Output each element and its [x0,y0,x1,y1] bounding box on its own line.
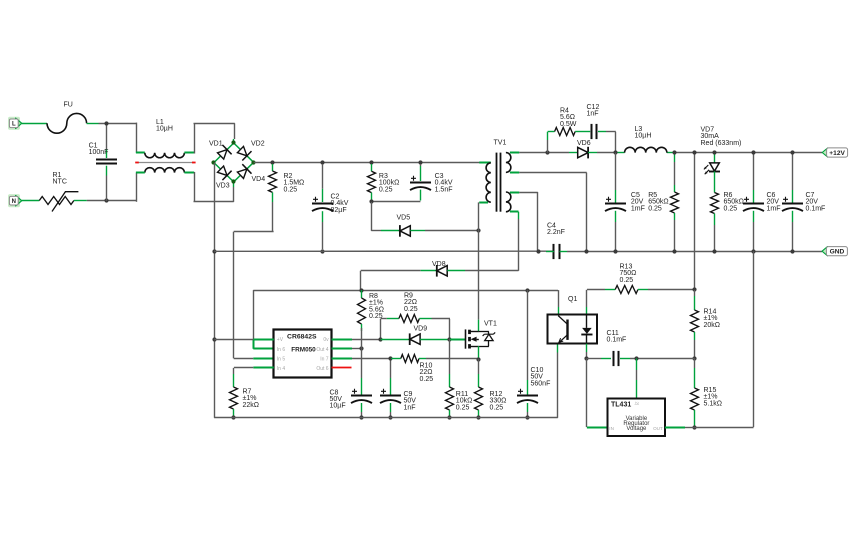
wire L to fuse FU [22,123,47,125]
svg-text:5.1kΩ: 5.1kΩ [704,400,722,407]
label L1 10uH [156,119,173,133]
label C7 [806,192,826,212]
resistor R2 1.5M [269,164,277,202]
junction R6 bottom [712,249,716,253]
optocoupler Q1 body [548,315,598,344]
wire TL431 IN net [587,358,608,427]
wire primary ground mid rail [214,250,554,252]
IC pin5 gate-drive wire (0v row) [332,339,381,341]
svg-text:TV1: TV1 [494,140,507,147]
resistor R8 5.6 [358,290,366,349]
junction R3 top [369,160,373,164]
svg-text:+V: +V [277,337,284,343]
wire VD6 to output node [588,152,615,154]
label R10 [420,363,434,383]
wire C11 right lead [620,358,694,360]
label C8 [330,389,346,409]
capacitor C2 82uF [312,164,333,249]
svg-text:In 5: In 5 [277,357,286,363]
wire VD8 row left segment [361,271,437,291]
TL431 inner text [623,416,649,432]
label R15 [704,387,722,407]
junction row290 / C10 [525,288,529,292]
capacitor C1 100nF [96,125,117,200]
svg-text:VD2: VD2 [251,140,265,147]
label VD2 [251,140,265,147]
svg-text:10µH: 10µH [156,126,173,133]
TL431 pin label OUT [653,426,663,431]
wire main HV rail [254,162,490,164]
label R6 [724,192,744,212]
terminal +12V output [822,148,847,157]
regulator U2 TL431 body [608,399,666,437]
label VD8 [432,261,446,268]
terminal GND output [822,247,847,256]
wire R3/C3 bottom node row [371,201,420,203]
label C10 [531,367,551,387]
svg-text:0.25: 0.25 [379,186,393,193]
wire +12V feed down to feedback [694,153,696,290]
resistor R9 22 [399,315,420,323]
capacitor C10 560nF [517,290,538,418]
svg-text:0.25: 0.25 [648,205,662,212]
bridge corner junction right [251,160,255,164]
label C12 1nF [587,104,600,118]
wire L1 bottom right to bridge bottom [184,172,233,202]
svg-text:2|: 2| [635,402,640,406]
transformer TV1 secondary top winding [506,153,511,173]
svg-text:2.2nF: 2.2nF [547,229,565,236]
junction C10 bottom [525,415,529,419]
wire bridge negative rail (left vertical) [214,163,216,418]
wire VD8 right segment [447,270,518,272]
capacitor C7 0.1mF [782,153,803,252]
label R7 [243,389,260,409]
svg-text:0.1mF: 0.1mF [607,337,627,344]
wire node down to VD5 row [371,202,373,231]
resistor R13 750 [605,286,694,294]
junction R12 bottom [476,415,480,419]
wire feedback row 290 (IC In6 net) [253,290,558,349]
wire VD5 left lead [371,230,400,232]
wire VD5 to drain node [410,230,478,232]
IC pin1 wire (+V to neg rail) [214,339,274,341]
svg-text:1mF: 1mF [767,205,781,212]
svg-text:Q1: Q1 [568,296,577,303]
capacitor C4 2.2nF [554,244,560,259]
label VD6 [577,140,591,147]
resistor R11 10k [446,339,454,418]
label C6 [767,192,781,212]
wire node B to L1 bottom pin [136,173,145,202]
label R13 [620,264,637,284]
svg-text:0.25: 0.25 [724,205,738,212]
label FU [64,102,73,109]
wire secondary pin3 to sec ground [510,192,538,250]
junction C6 bottom [751,249,755,253]
resistor R12 330 [475,359,483,418]
transformer TV1 core [497,153,501,212]
IC U1 CR6842S body [274,330,332,378]
svg-text:FRM050: FRM050 [291,347,316,354]
svg-text:0.25: 0.25 [404,306,418,313]
inductor L1 top winding [145,153,185,158]
wire +12V rail [616,152,822,154]
resistor R14 20k [691,290,699,359]
label C3 1.5nF [435,173,453,193]
wire TV1 primary bottom to drain [479,202,489,331]
wire VT1 source [478,346,480,359]
junction C2 bottom [320,249,324,253]
resistor R5 650k [671,153,679,252]
Q1 internal LED [581,314,592,343]
svg-text:In 7: In 7 [320,357,329,363]
diode VD2 [237,146,251,160]
wire secondary pin1 (top) row [510,152,578,154]
junction gate node [447,337,451,341]
TL431 pin label IN [609,426,614,431]
label C1 100nF [89,142,109,156]
junction C9 bottom [388,415,392,419]
L1 core line with red ends [135,162,195,164]
wire R9 loop left [381,319,399,340]
svg-text:0.25: 0.25 [620,277,634,284]
junction neg rail / IC pin row [212,337,216,341]
transformer TV1 secondary bottom winding [506,192,511,212]
label VT1 [484,321,497,328]
wire R2 bottom to IC In5 [234,202,274,359]
diode VD9 [410,333,420,345]
wire Q1 cathode gray [586,352,588,358]
svg-text:VD1: VD1 [209,140,223,147]
wire R4 to C12 [575,131,590,133]
label R3 100k [379,173,399,193]
label Q1 [568,296,577,303]
svg-text:Out 4: Out 4 [316,347,328,353]
label R8 [369,293,384,320]
junction R5 top [672,150,676,154]
resistor R6 650k [711,193,719,252]
wire Q1 LED anode up to R13 row [587,290,606,315]
label TV1 [494,140,507,147]
capacitor C9 1nF [380,358,401,418]
svg-text:0.5W: 0.5W [560,121,577,128]
junction C7 bottom [790,249,794,253]
terminal L (mains live input) [8,117,22,130]
junction C7 top [790,150,794,154]
junction Out4 / R8-C8 column [359,346,363,350]
bridge edge wires (green diamond) [214,143,254,182]
wire VD9 right lead [420,339,450,341]
label R11 [456,391,473,411]
wire R1 to node B [74,200,137,202]
svg-text:VD4: VD4 [252,176,266,183]
IC title CR6842S [287,333,317,340]
junction C8 bottom [359,415,363,419]
diode VD3 [218,166,232,180]
junction VD7 top [712,150,716,154]
svg-text:82µF: 82µF [331,207,347,214]
junction R14 bottom / C11 row [692,356,696,360]
capacitor C3 1.5nF [410,164,431,201]
TL431 pin2 mark [635,402,640,406]
junction R5 bottom [672,249,676,253]
IC pin4 wire (In4 to R7) [234,368,274,375]
fuse FU [47,113,87,133]
wire TL431 top pin [636,358,638,398]
svg-text:VD6: VD6 [577,140,591,147]
label R1 NTC [53,172,67,186]
svg-text:0.25: 0.25 [420,376,434,383]
junction R11 bottom [447,415,451,419]
svg-text:VD9: VD9 [414,326,428,333]
wire L1 top right to bridge top [184,123,234,153]
label C4 2.2nF [547,223,565,237]
junction sec-gnd tap C4 [536,249,540,253]
label L3 10uH [635,126,652,140]
svg-text:20kΩ: 20kΩ [704,322,721,329]
resistor R15 5.1k [691,358,699,427]
label R5 [648,192,668,212]
svg-text:In 6: In 6 [277,347,286,353]
label VD4 [252,176,266,183]
junction R7 bottom [231,415,235,419]
svg-text:IN: IN [609,426,614,431]
diode VD7 LED [704,153,720,193]
label VD3 [216,182,230,189]
capacitor C6 1mF [743,153,764,252]
junction R2 top [270,160,274,164]
diode VD5 [400,225,410,237]
svg-text:1mF: 1mF [631,205,645,212]
label VD1 [209,140,223,147]
resistor R10 22 [391,355,479,363]
resistor R7 22k [230,374,238,418]
svg-text:In 4: In 4 [277,366,286,372]
inductor L3 10uH [625,147,667,152]
IC left pin labels [277,337,286,372]
junction row290 / R8 [359,288,363,292]
resistor R4 5.6 [555,128,576,136]
wire C4 left green stub [546,251,554,253]
bridge corner junction top [231,140,235,144]
svg-text:0.25: 0.25 [284,186,298,193]
label C9 [404,391,417,411]
label VD7 [701,127,742,147]
TL431 title [611,401,631,408]
junction C2 top [320,160,324,164]
junction C9 top [388,356,392,360]
wire TL431 OUT net [665,251,754,427]
junction VD9 cathode node [378,337,382,341]
junction snubber tap [545,150,549,154]
svg-text:Voltage: Voltage [626,426,647,432]
capacitor C11 0.1mF [614,351,619,366]
junction C3 top [418,160,422,164]
junction R15 bottom / OUT row [692,425,696,429]
junction sec gnd pin2 [584,249,588,253]
junction R3 bottom node [369,199,373,203]
wire snubber branch up [548,132,555,153]
svg-text:FU: FU [64,102,73,109]
capacitor C8 10uF [351,349,372,418]
wire Q1 cathode down to C11 row [586,344,588,352]
svg-text:OUT: OUT [653,426,663,431]
junction TL431 ref tap [634,356,638,360]
diode VD1 [218,145,232,159]
IC subtitle FRM050 [291,347,316,354]
resistor R3 100k [368,164,376,200]
junction neg rail / primary ground [212,249,216,253]
resistor R1 NTC [39,192,78,212]
svg-text:0v: 0v [323,337,329,343]
transistor VT1 MOSFET [466,329,496,348]
diode VD8 [437,265,447,277]
svg-text:0.25: 0.25 [490,404,504,411]
label R14 [704,309,721,329]
svg-text:NTC: NTC [53,179,67,186]
junction C6 top [751,150,755,154]
wire secondary pin4 down to VD8 row [510,212,519,271]
diode VD4 [237,164,251,178]
wire gate lead [450,339,466,341]
label C2 82uF [331,194,349,214]
wire C4 right to GND rail [559,251,822,253]
junction C5 bottom [613,249,617,253]
svg-text:Red (633nm): Red (633nm) [701,140,742,147]
wire primary ground bottom rail [214,344,558,418]
wire node A to L1 top pin [136,123,145,153]
svg-text:TL431: TL431 [611,401,631,408]
junction R13 right / R14 top [692,287,696,291]
bridge corner junction bottom [231,179,235,183]
terminal N (mains neutral input) [8,194,22,207]
label C5 [631,192,645,212]
Q1 phototransistor [558,316,567,344]
wire VD9 left lead [381,339,410,341]
svg-text:CR6842S: CR6842S [287,333,317,340]
svg-text:100nF: 100nF [89,149,109,156]
svg-text:VD5: VD5 [397,215,411,222]
svg-text:10µF: 10µF [330,403,346,410]
junction VD6 out / C5 / C12 [613,150,617,154]
junction C11 row left [584,356,588,360]
svg-text:VD3: VD3 [216,182,230,189]
svg-text:560nF: 560nF [531,380,551,387]
wire N to R1 [22,200,40,202]
IC pin8 unconnected red stub (Out 6) [332,367,352,369]
svg-text:GND: GND [830,249,845,256]
wire C12 to rail [598,132,616,152]
label VD5 [397,215,411,222]
wire C11 left lead [587,358,611,360]
wire secondary pin2 to sec ground [510,173,587,251]
inductor L1 bottom winding [145,168,185,173]
svg-text:22kΩ: 22kΩ [243,402,260,409]
junction VD5 / drain line [476,228,480,232]
IC right pin labels [316,337,329,372]
wire R9 loop right [419,319,450,340]
capacitor C5 1mF [605,153,626,252]
bridge corner junction left [211,160,215,164]
wire fuse to node A [87,123,137,125]
label R9 [404,293,418,313]
IC pin7 wire (In7 row to C9/R10) [332,358,391,360]
label R12 [490,391,507,411]
svg-text:VD8: VD8 [432,261,446,268]
svg-text:N: N [12,199,16,205]
svg-text:0.1mF: 0.1mF [806,205,826,212]
svg-text:1.5nF: 1.5nF [435,186,453,193]
junction node B (C1 bottom) [104,198,108,202]
svg-text:1nF: 1nF [404,404,416,411]
svg-text:+12V: +12V [829,150,845,157]
junction feed top [692,150,696,154]
IC pin6 wire (Out4 to C8/R8 column) [332,348,362,350]
diode VD6 [578,147,588,159]
svg-text:VT1: VT1 [484,321,497,328]
transformer TV1 primary winding [479,163,491,203]
label C11 [607,330,627,344]
junction node A (C1 top) [104,121,108,125]
svg-text:L: L [12,122,16,128]
label R2 1.5M [284,173,305,193]
svg-text:10µH: 10µH [635,133,652,140]
junction source node [476,357,480,361]
svg-text:0.25: 0.25 [456,404,470,411]
svg-text:1nF: 1nF [587,111,599,118]
capacitor C12 1nF [592,124,597,139]
label R4 [560,108,577,128]
svg-text:Out 6: Out 6 [316,366,328,372]
label VD9 [414,326,428,333]
